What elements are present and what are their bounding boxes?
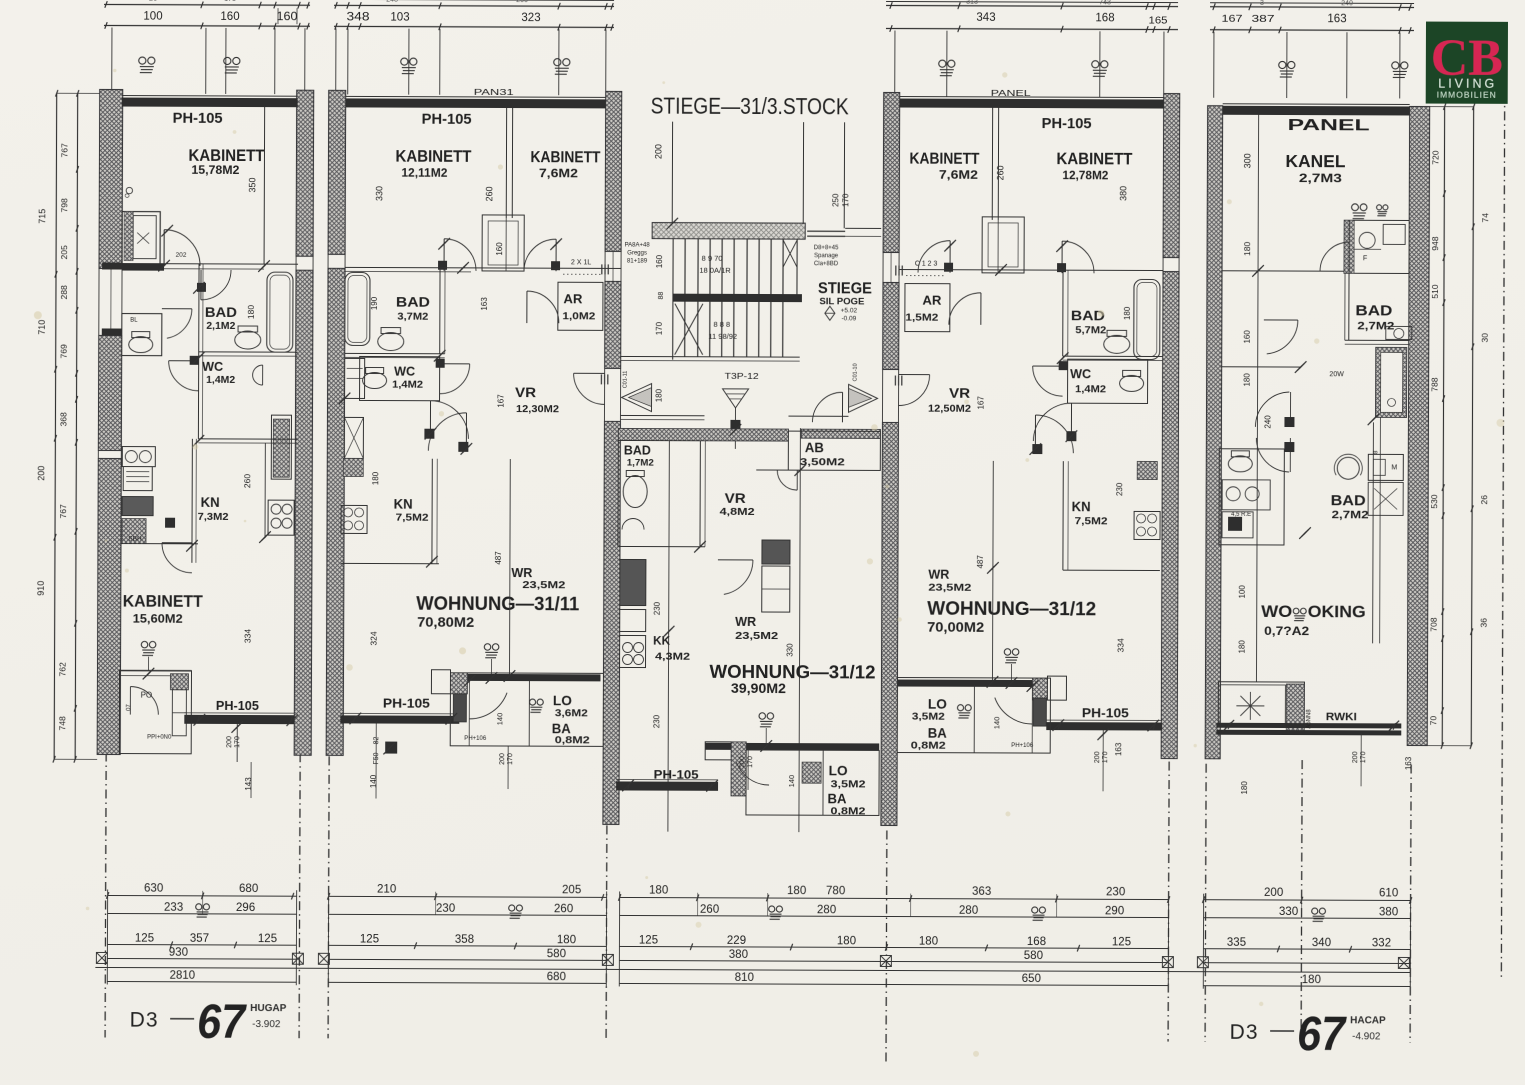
svg-text:WOHNUNG—31/11: WOHNUNG—31/11: [416, 594, 579, 616]
svg-text:200: 200: [1352, 751, 1359, 763]
svg-text:487: 487: [494, 551, 503, 565]
svg-text:163: 163: [1404, 756, 1413, 770]
svg-text:180: 180: [837, 935, 856, 947]
unit5 lower bath room: [1305, 443, 1405, 533]
svg-text:0,8M2: 0,8M2: [830, 806, 866, 817]
corridor floor lines: [620, 414, 704, 416]
unit2 lower parapet band: [340, 715, 459, 723]
svg-text:LO: LO: [553, 693, 572, 708]
svg-text:C01-10: C01-10: [853, 363, 859, 381]
svg-text:20W: 20W: [1329, 371, 1344, 378]
svg-text:WR: WR: [928, 567, 950, 582]
unit2 partition wall kabinetts: [505, 108, 507, 218]
unit1 bathtub: [267, 272, 293, 352]
middle top interior wall: [671, 122, 673, 224]
CB Living Immobilien logo: [1426, 22, 1508, 104]
svg-text:18 0A/1R: 18 0A/1R: [699, 266, 731, 275]
svg-text:74: 74: [1480, 213, 1490, 223]
svg-text:BAD: BAD: [1331, 493, 1366, 509]
svg-text:200: 200: [226, 736, 233, 748]
svg-text:M: M: [1391, 464, 1397, 471]
svg-text:IMMOBILIEN: IMMOBILIEN: [1437, 90, 1497, 100]
svg-text:335: 335: [1227, 937, 1246, 949]
unit5 interior vertical wall: [1256, 115, 1258, 682]
svg-text:2,7M2: 2,7M2: [1332, 509, 1369, 521]
unit2 vent flower mid: [484, 644, 499, 658]
unit1 wc sink: [253, 365, 263, 385]
unit4 kitchen wall+fixtures: [1062, 461, 1064, 570]
svg-text:1,4M2: 1,4M2: [392, 380, 424, 391]
unit5 bad door: [1348, 242, 1350, 271]
svg-text:KABINETT: KABINETT: [123, 592, 204, 611]
svg-text:125: 125: [258, 933, 277, 945]
svg-text:1,5M2: 1,5M2: [905, 313, 939, 324]
right sheet axis dash-dot line: [1501, 93, 1504, 978]
svg-text:3,5M2: 3,5M2: [831, 779, 867, 790]
bottom block vertical connectors: [106, 889, 108, 984]
extension lines from top dims to walls: [111, 28, 113, 94]
svg-text:88: 88: [658, 292, 665, 300]
svg-text:C01-11: C01-11: [623, 371, 629, 389]
svg-text:11 98/92: 11 98/92: [708, 332, 737, 341]
svg-text:100: 100: [143, 11, 162, 23]
unit2 AR closet upper: [482, 215, 524, 271]
svg-text:630: 630: [144, 883, 163, 895]
unit1 wall bad/wc: [199, 351, 298, 353]
svg-text:WOHNUNG—31/12: WOHNUNG—31/12: [927, 599, 1096, 621]
svg-text:348: 348: [346, 11, 369, 23]
svg-text:30: 30: [1480, 333, 1490, 343]
svg-text:230: 230: [1115, 482, 1124, 496]
svg-text:200: 200: [499, 753, 506, 765]
svg-text:230: 230: [653, 601, 662, 615]
svg-text:AR: AR: [563, 292, 582, 306]
unit4 top parapet band: [900, 99, 1164, 109]
svg-text:PH-105: PH-105: [216, 699, 259, 713]
svg-text:PANEL: PANEL: [1288, 117, 1370, 134]
svg-text:715: 715: [37, 209, 47, 224]
svg-text:180: 180: [649, 885, 668, 897]
svg-text:67: 67: [1297, 1008, 1347, 1061]
svg-text:140: 140: [495, 713, 504, 726]
svg-text:510: 510: [1430, 284, 1440, 298]
unit5 upper bath block: [1344, 220, 1409, 273]
svg-text:70,80M2: 70,80M2: [417, 614, 474, 630]
svg-text:Greggs: Greggs: [627, 250, 647, 256]
svg-text:160: 160: [220, 11, 239, 23]
svg-text:PH+106: PH+106: [1011, 743, 1034, 749]
svg-text:3,50M2: 3,50M2: [800, 456, 845, 468]
unit4 LO BA block: [897, 678, 1050, 754]
svg-text:PH-105: PH-105: [1042, 116, 1092, 132]
svg-text:168: 168: [1027, 936, 1046, 948]
svg-text:200: 200: [739, 756, 746, 768]
right inner vertical dimension line: [1442, 107, 1444, 746]
svg-text:STIEGE: STIEGE: [818, 280, 872, 297]
svg-text:260: 260: [242, 474, 252, 488]
unit2 left wall fixtures: [345, 358, 365, 398]
svg-text:23,5M2: 23,5M2: [522, 579, 565, 591]
svg-text:36: 36: [1479, 618, 1489, 628]
svg-text:23,5M2: 23,5M2: [735, 630, 778, 642]
svg-text:180: 180: [655, 388, 664, 402]
svg-text:167: 167: [497, 394, 506, 408]
unit5 top parapet band: [1223, 106, 1410, 116]
unit4 left exterior wall (hatched): [883, 92, 900, 252]
svg-text:LO: LO: [829, 763, 848, 778]
unit4 entry door arc: [899, 374, 930, 376]
svg-text:200: 200: [1094, 751, 1101, 763]
svg-text:167: 167: [977, 396, 986, 410]
unit4 bad/wc interior walls: [1062, 270, 1064, 356]
svg-text:39,90M2: 39,90M2: [731, 680, 786, 696]
stairwell landing beam (hatched): [652, 223, 805, 240]
svg-text:180: 180: [1242, 241, 1252, 255]
svg-text:165: 165: [1148, 15, 1168, 26]
svg-text:AR: AR: [922, 294, 941, 308]
entry corridor door symbol right: [848, 384, 877, 412]
svg-text:260: 260: [995, 165, 1005, 180]
svg-text:12,50M2: 12,50M2: [928, 403, 971, 415]
svg-text:680: 680: [239, 883, 258, 895]
svg-text:F50: F50: [373, 752, 380, 764]
unit5 left exterior wall (hatched): [1205, 106, 1223, 759]
svg-text:260: 260: [484, 186, 494, 201]
svg-text:160: 160: [495, 242, 504, 256]
svg-text:180: 180: [1240, 781, 1249, 795]
svg-text:332: 332: [1372, 937, 1391, 949]
svg-text:330: 330: [374, 186, 384, 201]
apt interior walls: [699, 441, 701, 547]
paper speckles: [498, 164, 503, 169]
svg-text:HUGAP: HUGAP: [250, 1003, 286, 1014]
svg-text:BA: BA: [827, 791, 846, 806]
svg-text:07: 07: [126, 704, 132, 711]
stair bottom line: [621, 355, 800, 358]
unit2 upper parapet band: [467, 674, 600, 682]
left inner vertical dimension line: [75, 93, 78, 759]
svg-text:334: 334: [1116, 638, 1126, 652]
svg-text:2,1M2: 2,1M2: [206, 321, 235, 332]
unit2 bathtub: [345, 272, 370, 345]
svg-text:WR: WR: [735, 615, 756, 629]
svg-text:205: 205: [562, 884, 581, 896]
unit2 top parapet band: [346, 98, 606, 108]
apt kitchen fixtures left: [620, 559, 646, 605]
svg-text:334: 334: [243, 629, 253, 643]
svg-text:4,8M2: 4,8M2: [720, 506, 755, 518]
apt AB room: [788, 431, 880, 470]
svg-text:340: 340: [1312, 937, 1331, 949]
svg-text:12,11M2: 12,11M2: [401, 168, 447, 180]
svg-text:7,3M2: 7,3M2: [198, 511, 229, 523]
unit4 partition wall kabinetts: [991, 108, 993, 220]
svg-text:163: 163: [1114, 742, 1123, 756]
stair upper diagonal: [783, 240, 797, 267]
svg-text:AB: AB: [805, 440, 824, 455]
svg-text:140: 140: [992, 717, 1001, 730]
svg-text:387: 387: [1251, 13, 1274, 25]
svg-text:RWKI: RWKI: [1326, 711, 1357, 723]
svg-text:250: 250: [831, 193, 840, 207]
svg-text:BL: BL: [130, 318, 138, 324]
right outer vertical dimension line: [1471, 107, 1473, 746]
unit2 LO BA block: [450, 673, 603, 747]
svg-text:VR: VR: [515, 385, 536, 400]
svg-text:SIL POGE: SIL POGE: [819, 296, 864, 307]
svg-text:3,7M2: 3,7M2: [397, 311, 428, 323]
unit5 hatched duct right: [1375, 347, 1406, 417]
unit1 kitchen right column: [273, 419, 289, 477]
svg-text:KABINETT: KABINETT: [909, 151, 979, 168]
apt vent flower: [759, 713, 774, 727]
unit2 AR door+closet: [526, 291, 528, 323]
svg-text:280: 280: [817, 904, 836, 916]
svg-text:3: 3: [1260, 0, 1264, 7]
unit2 lower door arcs: [429, 401, 431, 439]
svg-text:260: 260: [516, 0, 528, 4]
unit1 door arc bad: [200, 270, 202, 300]
svg-text:180: 180: [371, 471, 380, 485]
svg-text:180: 180: [1243, 373, 1252, 387]
svg-text:VR: VR: [949, 386, 970, 401]
unit4 lower door arcs: [1070, 403, 1072, 441]
svg-text:BA: BA: [928, 726, 947, 741]
svg-text:380: 380: [1379, 906, 1398, 918]
svg-text:143: 143: [244, 777, 253, 791]
svg-text:368: 368: [58, 412, 68, 426]
svg-text:BA: BA: [552, 721, 571, 736]
svg-text:168: 168: [1095, 12, 1114, 24]
svg-text:200: 200: [36, 466, 46, 481]
unit1 kn/kabinett wall: [121, 543, 198, 545]
cut-off top row fragments: [104, 0, 310, 1]
svg-text:PANEL: PANEL: [991, 89, 1032, 98]
svg-text:0,8M2: 0,8M2: [555, 735, 591, 746]
svg-text:PAN31: PAN31: [474, 88, 515, 97]
svg-text:7,6M2: 7,6M2: [539, 168, 578, 180]
unit4 vent flower mid: [1004, 649, 1019, 663]
unit4 lower parapet band: [1046, 722, 1162, 730]
bottom block end cross boxes: [96, 952, 107, 963]
svg-text:70: 70: [1428, 716, 1438, 726]
svg-text:530: 530: [1429, 494, 1439, 508]
svg-text:210: 210: [377, 884, 396, 896]
top dimension lines unit2: [334, 5, 614, 6]
svg-text:930: 930: [169, 947, 188, 959]
svg-text:363: 363: [972, 886, 991, 898]
svg-text:350: 350: [247, 178, 257, 193]
svg-text:67: 67: [197, 996, 247, 1049]
unit4 bad toilet: [1104, 330, 1130, 353]
svg-text:230: 230: [436, 903, 455, 915]
unit2 door arcs kabinett: [443, 239, 445, 271]
svg-text:4,3M2: 4,3M2: [655, 652, 691, 663]
unit2 entry door arc: [574, 372, 605, 374]
svg-text:WC: WC: [1070, 367, 1091, 381]
axis dash-dot lines: [105, 752, 106, 1037]
svg-text:323: 323: [521, 12, 540, 24]
svg-text:205: 205: [59, 245, 69, 259]
svg-text:296: 296: [236, 902, 255, 914]
unit1 lower pier: [170, 674, 188, 690]
unit1 door bath: [163, 230, 165, 266]
stair mid landing band: [673, 294, 802, 302]
svg-text:650: 650: [1022, 973, 1041, 985]
unit1 kitchen counter edge: [264, 443, 266, 538]
bottom dimension row1 ticks+numbers: [106, 892, 108, 899]
unit1 bath top-left shower block: [122, 212, 160, 266]
svg-text:12,78M2: 12,78M2: [1062, 170, 1108, 182]
svg-text:Cla+8BD: Cla+8BD: [814, 261, 839, 267]
svg-text:330: 330: [1279, 906, 1298, 918]
unit5 duct slot: [1372, 422, 1375, 643]
svg-text:260: 260: [554, 903, 573, 915]
unit1 lower bath block: [122, 314, 162, 356]
svg-text:15,60M2: 15,60M2: [133, 614, 183, 626]
svg-text:910: 910: [36, 581, 46, 596]
bottom dimension lines: [108, 894, 297, 897]
svg-text:140: 140: [369, 774, 378, 788]
svg-text:280: 280: [959, 905, 978, 917]
svg-text:+5.02: +5.02: [841, 307, 858, 314]
unit1 right exterior wall (hatched): [296, 90, 314, 256]
svg-text:WC: WC: [394, 365, 415, 379]
svg-text:167: 167: [1221, 13, 1242, 25]
svg-text:769: 769: [59, 344, 69, 358]
svg-text:163: 163: [1327, 13, 1346, 25]
svg-text:103: 103: [390, 12, 409, 24]
svg-text:125: 125: [1112, 936, 1131, 948]
unit1 left exterior wall (hatched): [99, 89, 123, 268]
apt BAD room: [618, 440, 700, 546]
svg-text:140: 140: [787, 775, 796, 788]
unit5 mid door arcs: [1289, 392, 1291, 427]
svg-text:180: 180: [246, 305, 256, 319]
svg-text:8 9 70: 8 9 70: [702, 254, 723, 263]
unit1 kitchen fixtures left: [122, 447, 155, 467]
svg-text:748: 748: [57, 716, 67, 730]
svg-text:BAD: BAD: [624, 443, 651, 457]
svg-text:PH-105: PH-105: [1082, 706, 1129, 720]
svg-text:580: 580: [1024, 950, 1043, 962]
svg-text:2 X 1L: 2 X 1L: [571, 259, 591, 266]
svg-text:PH-105: PH-105: [383, 697, 430, 711]
svg-text:230: 230: [652, 714, 661, 728]
unit2 room divider vertical: [508, 459, 511, 674]
unit4 middle horizontal wall: [899, 270, 1163, 271]
unit4 door arcs kabinett: [949, 241, 951, 273]
svg-text:7,5M2: 7,5M2: [396, 512, 429, 524]
svg-text:D8+8+45: D8+8+45: [814, 245, 839, 251]
svg-text:KN: KN: [394, 497, 413, 512]
unit2 middle horizontal wall: [345, 267, 621, 268]
svg-text:100: 100: [1238, 585, 1247, 599]
svg-text:1,0M2: 1,0M2: [562, 311, 596, 322]
unit2 bad/wc interior walls: [439, 268, 441, 354]
svg-text:780: 780: [826, 885, 845, 897]
svg-text:240: 240: [1263, 415, 1272, 429]
stiege level diamond: [825, 306, 835, 320]
svg-text:2,7M3: 2,7M3: [1299, 173, 1342, 185]
svg-text:Spanage: Spanage: [814, 253, 839, 259]
svg-text:125: 125: [360, 933, 379, 945]
apt door arcs middle: [718, 559, 753, 561]
svg-text:KN: KN: [201, 495, 220, 510]
svg-text:300: 300: [1242, 153, 1252, 168]
stair lower diagonals: [675, 304, 703, 355]
svg-text:788: 788: [1430, 377, 1440, 391]
svg-text:200: 200: [653, 144, 663, 159]
svg-text:580: 580: [547, 948, 566, 960]
svg-text:0,8M2: 0,8M2: [911, 741, 947, 752]
svg-text:D3: D3: [1230, 1021, 1259, 1044]
unit2 bad toilet: [378, 328, 404, 351]
svg-text:D3: D3: [130, 1009, 159, 1032]
svg-text:290: 290: [1105, 905, 1124, 917]
svg-text:233: 233: [164, 902, 183, 914]
svg-text:743: 743: [1099, 0, 1111, 6]
unit5 bottom parapet bands: [1216, 723, 1401, 729]
svg-text:3,6M2: 3,6M2: [555, 708, 589, 719]
svg-text:PH+106: PH+106: [464, 736, 487, 742]
svg-text:200: 200: [1264, 887, 1283, 899]
svg-text:-4.902: -4.902: [1352, 1031, 1381, 1042]
unit5 room divider h1: [1222, 270, 1349, 272]
svg-text:1,4M2: 1,4M2: [206, 375, 235, 386]
svg-text:343: 343: [976, 12, 995, 24]
svg-text:PH-105: PH-105: [173, 111, 223, 127]
svg-text:KN: KN: [1072, 499, 1091, 514]
svg-text:230: 230: [1106, 886, 1125, 898]
svg-text:720: 720: [1430, 150, 1440, 164]
svg-text:810: 810: [735, 972, 754, 984]
svg-text:VR: VR: [725, 491, 746, 506]
svg-text:610: 610: [1379, 887, 1398, 899]
unit5 lower left block: [1218, 682, 1304, 726]
vent symbols above units: [139, 57, 155, 73]
svg-text:WO: WO: [1261, 603, 1292, 621]
svg-text:WC: WC: [202, 360, 223, 374]
svg-text:180: 180: [557, 934, 576, 946]
unit4 WC room: [1068, 359, 1148, 403]
unit4 upper parapet band: [897, 680, 1032, 688]
svg-text:KABINETT: KABINETT: [188, 146, 265, 165]
svg-text:SBH: SBH: [128, 536, 142, 543]
svg-text:B9: B9: [149, 0, 158, 3]
svg-text:487: 487: [976, 555, 985, 569]
top dimension lines unit5: [1210, 6, 1414, 9]
svg-text:T3P-12: T3P-12: [725, 372, 760, 381]
svg-text:PO: PO: [141, 691, 153, 700]
svg-text:1,7M2: 1,7M2: [627, 457, 654, 467]
unit4 room divider vertical: [991, 461, 994, 680]
bottom row2 vent symbols: [196, 904, 210, 917]
svg-text:KABINETT: KABINETT: [1056, 149, 1133, 168]
svg-text:KANEL: KANEL: [1285, 151, 1345, 171]
svg-text:7,5M2: 7,5M2: [1075, 515, 1108, 527]
unit5 right exterior wall (hatched): [1407, 106, 1429, 745]
svg-text:125: 125: [135, 933, 154, 945]
svg-text:313: 313: [966, 0, 978, 6]
svg-text:PA8A+48: PA8A+48: [625, 242, 651, 248]
svg-text:1,4M2: 1,4M2: [1075, 384, 1107, 395]
svg-text:7,6M2: 7,6M2: [939, 170, 978, 182]
svg-text:170: 170: [655, 321, 664, 335]
unit1 lower room door: [129, 687, 131, 715]
svg-text:948: 948: [1430, 236, 1440, 250]
svg-text:330: 330: [786, 643, 795, 657]
